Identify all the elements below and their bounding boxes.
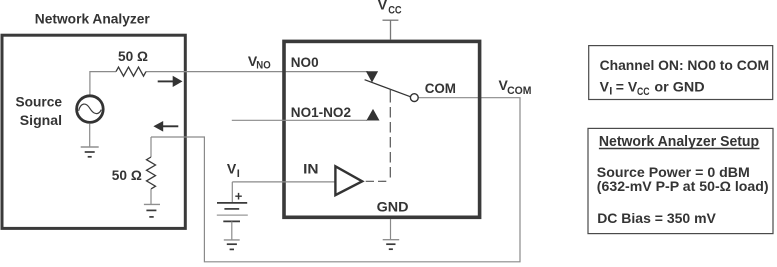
dashed control line xyxy=(389,92,391,181)
svg-text:COM: COM xyxy=(425,80,456,96)
svg-text:CC: CC xyxy=(637,86,650,98)
resistor R1 50 ohm horizontal xyxy=(116,67,146,76)
wire NO1-NO2 stub xyxy=(232,119,367,121)
wire GND stub xyxy=(390,219,392,240)
svg-text:NO1-NO2: NO1-NO2 xyxy=(291,104,351,120)
svg-text:Source: Source xyxy=(16,94,63,110)
svg-text:CC: CC xyxy=(388,4,401,16)
wire return path from COM to 50 ohm load xyxy=(151,98,520,262)
svg-text:IN: IN xyxy=(303,160,318,176)
svg-text:Network Analyzer Setup: Network Analyzer Setup xyxy=(599,133,759,150)
switch pole circle COM xyxy=(410,94,418,102)
switch IC box U1 xyxy=(284,41,480,217)
wire NO0 line xyxy=(146,71,368,73)
switch throw NO1-NO2 triangle xyxy=(366,109,379,121)
wire load resistor bottom lead xyxy=(150,189,152,204)
arrow right (signal direction) xyxy=(158,76,183,87)
svg-text:50 Ω: 50 Ω xyxy=(112,167,142,183)
VCC power symbol xyxy=(383,20,399,39)
wire battery to ground xyxy=(231,221,233,239)
wire source to resistor and NO0 xyxy=(90,72,116,95)
arrow left (return direction) xyxy=(153,121,178,132)
svg-text:Network Analyzer: Network Analyzer xyxy=(35,11,151,27)
resistor R2 50 ohm vertical xyxy=(147,157,156,189)
note box channel on xyxy=(589,46,773,100)
switch lever xyxy=(365,80,411,97)
wire source to ground xyxy=(89,124,91,147)
svg-text:= V: = V xyxy=(616,79,638,95)
battery V1 (VI source) xyxy=(217,182,248,222)
svg-text:50 Ω: 50 Ω xyxy=(118,48,148,64)
svg-text:GND: GND xyxy=(377,199,409,215)
network analyzer box xyxy=(2,35,185,228)
buffer driver U1A xyxy=(335,166,362,195)
svg-text:(632-mV P-P at 50-Ω load): (632-mV P-P at 50-Ω load) xyxy=(597,178,769,194)
svg-text:COM: COM xyxy=(507,85,531,97)
svg-text:+: + xyxy=(235,189,243,204)
svg-text:V: V xyxy=(378,0,388,13)
svg-text:NO: NO xyxy=(256,60,271,72)
svg-text:V: V xyxy=(600,79,610,95)
ground under load resistor xyxy=(144,204,160,217)
svg-text:I: I xyxy=(609,86,612,98)
ground under battery xyxy=(224,240,240,250)
svg-text:Channel ON: NO0 to COM: Channel ON: NO0 to COM xyxy=(600,57,770,73)
svg-text:Signal: Signal xyxy=(20,112,62,128)
svg-text:or GND: or GND xyxy=(654,79,704,95)
ground under source xyxy=(81,147,99,157)
svg-text:NO0: NO0 xyxy=(291,54,319,70)
wire VI to IN buffer xyxy=(232,181,335,183)
svg-text:DC Bias = 350 mV: DC Bias = 350 mV xyxy=(597,210,716,226)
svg-text:V: V xyxy=(227,161,237,177)
svg-text:I: I xyxy=(237,168,240,180)
note box network analyzer setup xyxy=(588,128,773,233)
ground under GND pin xyxy=(383,240,400,250)
wire load resistor top lead xyxy=(150,137,152,157)
source signal AC source xyxy=(77,96,104,123)
switch throw NO0 triangle xyxy=(366,71,378,82)
